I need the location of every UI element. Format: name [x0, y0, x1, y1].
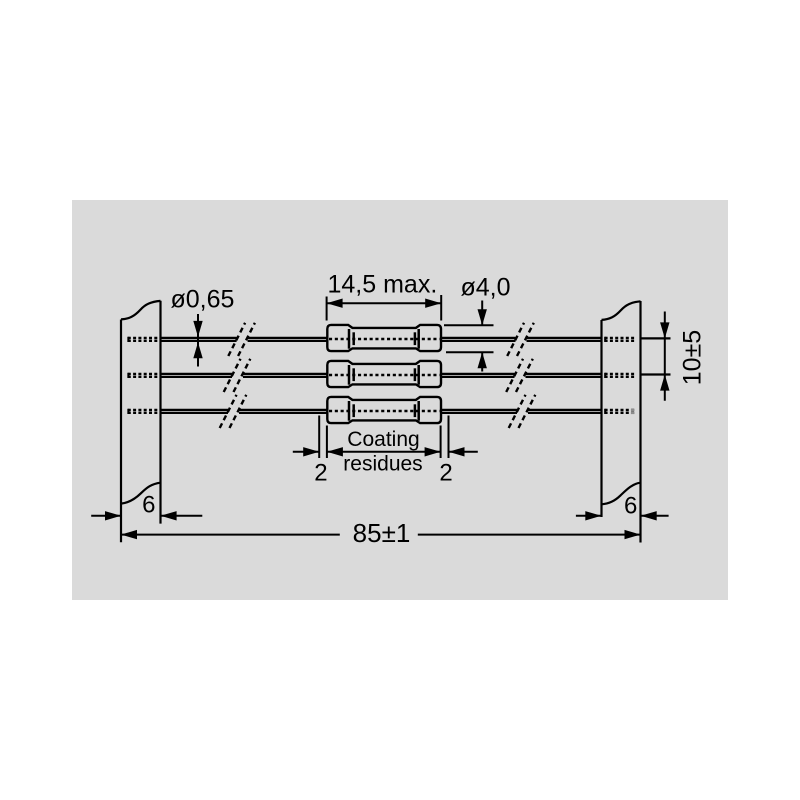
break mark row 2 right — [506, 359, 533, 392]
gray drawing background — [72, 200, 728, 600]
left tape torn top edge — [121, 301, 161, 320]
dimension o4,0 body diameter — [444, 274, 511, 372]
svg-text:residues: residues — [343, 453, 422, 476]
svg-text:Coating: Coating — [347, 428, 419, 451]
hidden lead row 3 in right tape — [605, 409, 637, 414]
dimension 85+-1 overall length — [121, 518, 641, 548]
svg-text:2: 2 — [314, 460, 327, 487]
svg-text:85±1: 85±1 — [353, 518, 411, 548]
left tape torn bottom edge — [121, 483, 161, 504]
resistor row 1 — [327, 325, 441, 351]
wire row 3 segments — [161, 410, 602, 413]
right tape left edge — [600, 320, 602, 517]
break mark row 2 left — [224, 359, 251, 392]
svg-text:14,5 max.: 14,5 max. — [328, 271, 438, 299]
hidden lead row 1 in right tape — [605, 337, 637, 342]
break mark row 3 right — [509, 395, 536, 428]
break mark row 1 right — [507, 323, 534, 356]
resistor row 3 — [327, 397, 441, 423]
dimension o0,65 lead diameter — [171, 286, 235, 367]
hidden lead row 2 in left tape — [128, 373, 160, 378]
svg-text:ø0,65: ø0,65 — [171, 286, 235, 314]
hidden lead row 1 in left tape — [128, 337, 160, 342]
left tape right edge — [159, 301, 161, 524]
right tape right edge — [639, 301, 641, 543]
right tape torn bottom edge — [602, 483, 641, 505]
resistor row 2 — [327, 361, 441, 387]
break mark row 1 left — [228, 323, 255, 356]
dimension 6 left tape width — [91, 492, 202, 521]
left tape left edge — [120, 320, 122, 543]
right tape torn top edge — [602, 301, 641, 320]
svg-text:ø4,0: ø4,0 — [461, 274, 511, 302]
dimension 6 right tape width — [576, 492, 669, 520]
svg-text:10±5: 10±5 — [679, 330, 707, 385]
hidden lead row 2 in right tape — [605, 373, 637, 378]
hidden lead row 3 gray end dash — [631, 409, 635, 412]
wire row 2 segments — [161, 374, 602, 377]
wire row 1 segments — [161, 338, 602, 413]
dimension 10+-5 lead spacing — [641, 312, 707, 401]
svg-text:2: 2 — [439, 460, 452, 487]
break mark row 3 left — [220, 395, 247, 428]
dimension 2 / coating residues row 3 — [293, 416, 478, 487]
hidden lead row 3 in left tape — [128, 409, 160, 414]
svg-text:6: 6 — [624, 492, 637, 519]
dimension 14,5 max. body length — [327, 271, 442, 321]
svg-text:6: 6 — [142, 492, 155, 519]
